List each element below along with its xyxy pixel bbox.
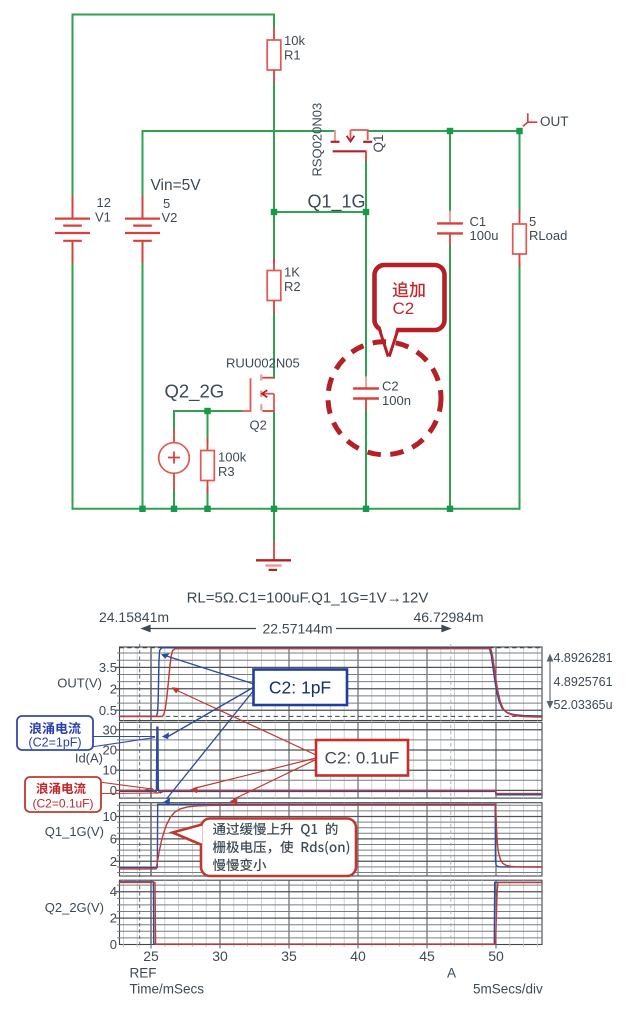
wire R1 bottom to Q1_1G node xyxy=(273,83,275,212)
svg-text:6: 6 xyxy=(110,831,117,846)
schematic section xyxy=(73,15,520,543)
svg-text:4.8925761: 4.8925761 xyxy=(554,675,613,689)
svg-text:0: 0 xyxy=(110,937,117,952)
svg-text:RLoad: RLoad xyxy=(529,228,567,243)
svg-text:(C2=0.1uF): (C2=0.1uF) xyxy=(32,797,93,811)
svg-text:100k: 100k xyxy=(218,450,247,465)
svg-text:C2: 1pF: C2: 1pF xyxy=(269,678,331,698)
svg-text:OUT: OUT xyxy=(540,114,569,129)
svg-text:R2: R2 xyxy=(284,279,301,294)
svg-text:REF: REF xyxy=(130,966,157,981)
svg-text:Q2_2G(V): Q2_2G(V) xyxy=(45,900,104,915)
grid panels xyxy=(120,647,543,721)
junction node V3-rail xyxy=(171,506,177,512)
capacitor C2 100n xyxy=(353,376,379,409)
svg-text:25: 25 xyxy=(143,948,159,964)
svg-text:Time/mSecs: Time/mSecs xyxy=(130,982,205,997)
wire Q1 drain to OUT node xyxy=(368,130,520,132)
speech bubble Rds(on) note xyxy=(201,819,356,877)
svg-text:V1: V1 xyxy=(95,210,111,225)
callout 浪涌电流 C2=0.1uF xyxy=(99,782,156,794)
voltage source V3 (pulse source, + circle) xyxy=(159,429,190,490)
resistor R2 1K xyxy=(267,258,281,314)
svg-text:24.15841m: 24.15841m xyxy=(99,609,169,625)
svg-text:Q2: Q2 xyxy=(250,418,267,433)
svg-text:5: 5 xyxy=(163,196,170,211)
svg-text:35: 35 xyxy=(281,948,297,964)
svg-text:R3: R3 xyxy=(218,464,235,479)
svg-text:30: 30 xyxy=(103,722,117,737)
svg-text:40: 40 xyxy=(350,948,366,964)
resistor RLoad 5 xyxy=(513,211,527,267)
svg-text:Id(A): Id(A) xyxy=(75,751,103,766)
svg-text:52.03365u: 52.03365u xyxy=(554,698,613,712)
wire top rail from V1 to R1 xyxy=(73,15,275,197)
svg-text:22.57144m: 22.57144m xyxy=(262,621,332,637)
wire bottom ground rail xyxy=(73,508,520,510)
callout 浪涌电流 C2=1pF xyxy=(91,737,155,748)
svg-text:4.8926281: 4.8926281 xyxy=(554,651,613,665)
junction node V2-rail xyxy=(139,506,145,512)
wire V3 source bottom to rail xyxy=(173,490,175,509)
svg-text:46.72984m: 46.72984m xyxy=(413,609,483,625)
svg-text:Vin=5V: Vin=5V xyxy=(151,177,202,194)
svg-text:C2: C2 xyxy=(382,379,399,394)
svg-text:1K: 1K xyxy=(284,265,300,280)
svg-text:0: 0 xyxy=(110,783,117,798)
A cursor dashed vertical xyxy=(450,644,452,948)
battery V1 12V xyxy=(55,196,90,263)
svg-text:C1: C1 xyxy=(470,214,487,229)
wire Q2 source to rail xyxy=(273,411,275,509)
wire C2 branch from Q1_1G node down xyxy=(365,212,367,376)
svg-text:3.5: 3.5 xyxy=(99,660,117,675)
waveform curves xyxy=(496,794,542,796)
svg-text:RUU002N05: RUU002N05 xyxy=(226,356,300,371)
svg-text:10: 10 xyxy=(103,809,117,824)
wire Q1_1G net horizontal xyxy=(274,211,366,213)
junction node ground-rail xyxy=(271,506,277,512)
callout box C2:0.1uF with arrows xyxy=(175,690,316,800)
junction node C1-OUT xyxy=(447,128,453,134)
transistor Q1 RSQ020N03 (PMOS) xyxy=(331,130,373,162)
wire C2 bottom to rail xyxy=(365,410,367,509)
junction node OUT xyxy=(516,128,522,134)
svg-text:RL=5Ω.C1=100uF.Q1_1G=1V→12V: RL=5Ω.C1=100uF.Q1_1G=1V→12V xyxy=(187,590,429,607)
svg-text:100u: 100u xyxy=(470,228,499,243)
ground symbol xyxy=(256,542,291,570)
horizontal cursor dashed lines panel1 xyxy=(120,647,543,649)
svg-text:10k: 10k xyxy=(284,33,305,48)
wire V1 bottom to ground rail xyxy=(72,263,74,509)
svg-text:R1: R1 xyxy=(284,48,301,63)
svg-text:(C2=1pF): (C2=1pF) xyxy=(28,736,81,750)
junction node Q1_1G left xyxy=(271,209,277,215)
svg-text:Q1: Q1 xyxy=(371,134,386,152)
svg-text:C2: C2 xyxy=(393,299,415,318)
OUT pin marker xyxy=(523,113,538,126)
svg-text:Q1_1G(V): Q1_1G(V) xyxy=(45,824,104,839)
wire R3 branch xyxy=(207,411,209,444)
wire V3 source top lead xyxy=(173,411,175,429)
svg-text:12: 12 xyxy=(97,195,111,210)
wire Q1 gate down to Q1_1G net xyxy=(365,161,367,212)
svg-text:0.5: 0.5 xyxy=(99,703,117,718)
transistor Q2 RUU002N05 (NMOS) xyxy=(242,367,275,411)
capacitor C1 100u xyxy=(437,211,463,246)
svg-text:30: 30 xyxy=(212,948,228,964)
svg-text:100n: 100n xyxy=(382,393,411,408)
svg-text:V2: V2 xyxy=(162,210,178,225)
svg-text:5: 5 xyxy=(529,214,536,229)
wire V2 bottom to rail xyxy=(142,263,144,509)
svg-text:2: 2 xyxy=(110,911,117,926)
junction node R3-rail xyxy=(204,506,210,512)
wire ground stem xyxy=(273,509,275,542)
svg-text:50: 50 xyxy=(488,948,504,964)
annotation bubble 追加 C2 xyxy=(375,265,445,357)
svg-text:Q2_2G: Q2_2G xyxy=(165,381,225,403)
junction node C2-rail xyxy=(363,506,369,512)
svg-text:RSQ020N03: RSQ020N03 xyxy=(310,103,325,177)
dashed highlight circle around C2 xyxy=(328,342,441,455)
svg-text:Q1_1G: Q1_1G xyxy=(308,192,366,213)
svg-text:2: 2 xyxy=(110,681,117,696)
svg-text:10: 10 xyxy=(103,763,117,778)
junction node C1-rail xyxy=(447,506,453,512)
svg-text:4: 4 xyxy=(110,884,117,899)
junction node Q1_1G right xyxy=(363,209,369,215)
wire Vin net: V2 top to Q1 source xyxy=(143,131,335,196)
wire Q2_2G net xyxy=(174,410,242,412)
svg-text:5mSecs/div: 5mSecs/div xyxy=(473,982,543,997)
wire Q1_1G node to R2 top xyxy=(273,212,275,262)
svg-text:A: A xyxy=(447,966,456,981)
wire C1 branch xyxy=(449,131,451,211)
wire RLoad branch xyxy=(519,131,521,212)
wire R2 bottom to Q2 drain xyxy=(273,314,275,378)
svg-text:2: 2 xyxy=(110,854,117,869)
REF cursor dashed vertical xyxy=(139,644,141,948)
svg-text:45: 45 xyxy=(419,948,435,964)
battery V2 5V xyxy=(125,196,160,263)
callout box C2:1pF with arrows xyxy=(165,656,254,800)
svg-text:C2: 0.1uF: C2: 0.1uF xyxy=(325,749,400,768)
resistor R1 10k xyxy=(267,27,281,83)
junction node Q2_2G xyxy=(204,408,210,414)
resistor R3 100k xyxy=(201,438,215,494)
svg-text:OUT(V): OUT(V) xyxy=(57,676,102,691)
